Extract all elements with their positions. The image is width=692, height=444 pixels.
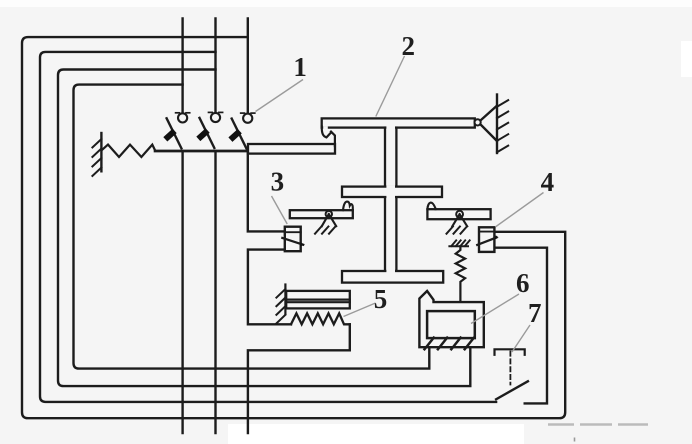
svg-text:6: 6 <box>516 268 530 298</box>
svg-text:1: 1 <box>293 52 307 82</box>
svg-text:4: 4 <box>541 167 555 197</box>
svg-text:5: 5 <box>374 284 388 314</box>
svg-text:7: 7 <box>528 298 542 328</box>
svg-text:3: 3 <box>271 167 285 197</box>
svg-text:2: 2 <box>402 31 416 61</box>
